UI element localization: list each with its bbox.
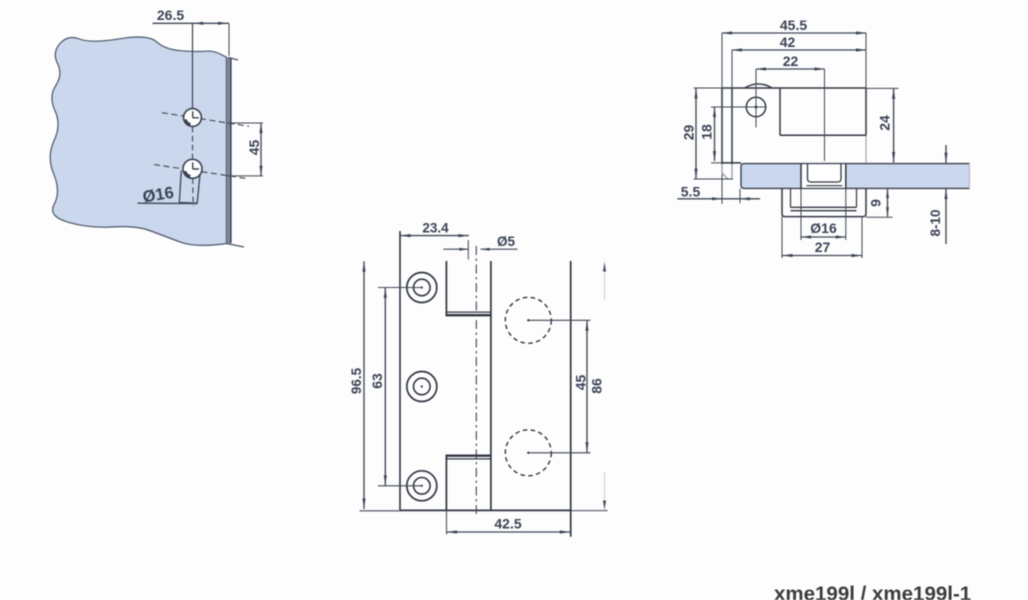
screw hole h-centerline	[711, 106, 766, 108]
svg-text:22: 22	[783, 53, 799, 69]
svg-text:8-10: 8-10	[928, 209, 943, 236]
glass strip	[741, 164, 970, 189]
screw hole	[746, 97, 765, 116]
wall plate lower lip	[722, 164, 732, 179]
dimension 18	[699, 107, 717, 161]
glass panel edge band	[226, 57, 244, 247]
svg-text:Ø5: Ø5	[497, 234, 516, 249]
right plate outline	[570, 261, 572, 537]
left plate outline	[399, 231, 401, 510]
dimension 86	[589, 262, 607, 510]
svg-text:9: 9	[868, 199, 884, 207]
tilted drill cylinder	[179, 171, 200, 204]
svg-text:42: 42	[780, 34, 796, 50]
svg-text:96.5: 96.5	[349, 367, 364, 394]
screw hole v-centerline	[755, 69, 757, 128]
svg-text:63: 63	[369, 373, 385, 389]
dimension 8-10 (glass thickness)	[928, 145, 948, 244]
clamp plate below glass	[782, 189, 866, 217]
svg-text:5.5: 5.5	[681, 184, 701, 200]
dimension 26.5	[153, 7, 230, 56]
upper glass hole	[184, 109, 202, 127]
glass panel (torn-edge view)	[50, 37, 226, 245]
dimension 22	[756, 53, 825, 71]
svg-text:Ø16: Ø16	[810, 220, 837, 236]
svg-text:18: 18	[699, 124, 715, 140]
dimension 9	[866, 189, 893, 218]
dimension 63	[369, 288, 422, 486]
dimension &#216;5 (pin)	[443, 234, 517, 251]
bushing through glass	[801, 163, 846, 188]
hole axis line (26.5 ref)	[192, 23, 194, 108]
countersink arc on top edge	[745, 84, 772, 88]
dimension 29	[681, 88, 734, 179]
svg-text:86: 86	[589, 378, 605, 394]
label Ø16 (glass hole diameter)	[138, 184, 198, 207]
plate bottom edge	[711, 162, 741, 164]
dimension 42	[732, 34, 866, 88]
edge reference line (22)	[824, 69, 826, 161]
wall plate outline	[722, 88, 866, 164]
hinge pin column right edge	[490, 261, 492, 510]
dimension 96.5 (overall height)	[349, 261, 400, 511]
dimension 45.5	[722, 17, 866, 88]
svg-text:45: 45	[246, 140, 262, 156]
dimension 24	[866, 88, 899, 162]
hinge pin centerline	[475, 246, 477, 516]
dimension 27	[782, 217, 862, 258]
svg-text:26.5: 26.5	[157, 7, 184, 23]
glass hole bottom centerline	[527, 452, 590, 454]
screw hole 1 (left plate)	[407, 273, 437, 303]
glass hole top (dashed)	[505, 297, 551, 343]
svg-text:29: 29	[681, 125, 697, 141]
product label xme199l / xme199l-1	[774, 583, 971, 600]
svg-text:24: 24	[877, 115, 893, 131]
upper hole slanted centerline	[162, 113, 249, 127]
screw hole 2 (left plate)	[407, 372, 437, 402]
glass hole top centerline	[527, 319, 590, 321]
bushing inner sleeve	[807, 164, 843, 186]
upper knuckle	[446, 261, 492, 316]
svg-text:42.5: 42.5	[494, 516, 521, 532]
dimension 42.5	[447, 510, 571, 535]
svg-text:45.5: 45.5	[780, 17, 807, 33]
dimension &#216;16 (bushing)	[801, 189, 846, 241]
dimension 45 (glass holes)	[573, 320, 589, 453]
screw hole 3 (left plate)	[407, 471, 437, 501]
svg-text:23.4: 23.4	[422, 221, 449, 236]
svg-text:45: 45	[573, 375, 589, 391]
dimension 23.4	[400, 221, 469, 260]
lower knuckle	[446, 456, 492, 510]
hinge bottom edge	[400, 509, 608, 511]
svg-text:xme199l / xme199l-1: xme199l / xme199l-1	[774, 583, 971, 600]
glass hole bottom (dashed)	[505, 430, 551, 476]
dimension 5.5	[677, 174, 760, 204]
hole axis dashed between holes	[192, 127, 194, 160]
dimension 45 (hole spacing)	[227, 123, 263, 176]
clamp inner plate	[791, 189, 857, 211]
lower glass hole	[183, 159, 202, 178]
hole axis dashed below lower hole	[192, 179, 195, 207]
lower hole slanted centerline	[154, 165, 248, 179]
svg-text:27: 27	[815, 239, 831, 255]
